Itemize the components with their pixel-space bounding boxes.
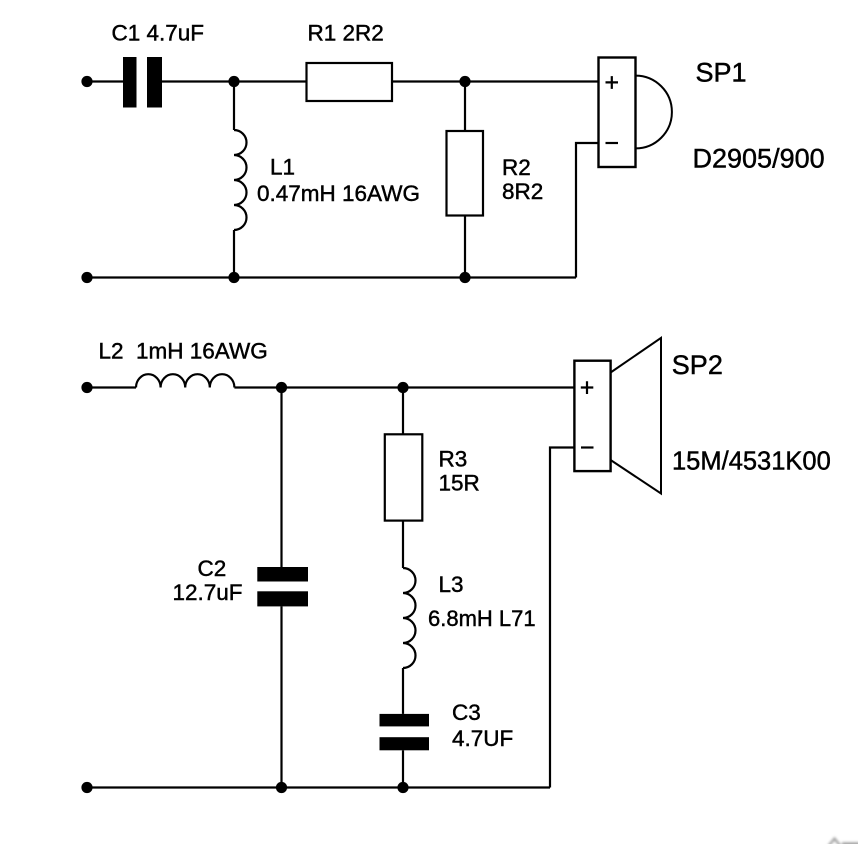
- wire bottom rail top circuit: [87, 276, 576, 278]
- wire bottom rail bottom circuit: [87, 786, 550, 788]
- wire node C down to C2: [280, 388, 282, 568]
- svg-text:6.8mH L71: 6.8mH L71: [428, 606, 536, 631]
- wire SP1 minus leg: [576, 143, 599, 278]
- SP1 minus pin: [606, 142, 619, 144]
- SP1 plus pin: [606, 76, 619, 89]
- node B- junction dot on bottom rail: [459, 272, 470, 283]
- svg-text:C3: C3: [452, 700, 481, 725]
- wire L2 to node C: [234, 386, 281, 388]
- wire L3 to C3: [402, 668, 404, 714]
- wire C2 to bottom rail: [280, 606, 282, 787]
- svg-text:15R: 15R: [439, 471, 480, 496]
- wire node D down to R3: [402, 388, 404, 435]
- capacitor C1 plate 2: [147, 57, 162, 108]
- svg-text:D2905/900: D2905/900: [693, 144, 825, 174]
- capacitor C2 plate 2: [257, 591, 308, 606]
- wire node D to SP2 plus: [403, 386, 574, 388]
- node IN1- terminal dot: [81, 272, 92, 283]
- wire input to C1: [87, 80, 123, 82]
- node A- junction dot on bottom rail: [228, 272, 239, 283]
- SP2 minus pin: [581, 446, 594, 448]
- wire node B to SP1 plus: [465, 80, 599, 82]
- node A junction dot: [228, 76, 239, 87]
- svg-text:L3: L3: [439, 572, 464, 597]
- svg-text:R1 2R2: R1 2R2: [308, 21, 384, 46]
- wire R3 to L3: [402, 521, 404, 568]
- svg-text:SP2: SP2: [672, 350, 723, 380]
- svg-text:C2: C2: [198, 556, 227, 581]
- wire L1 to bottom rail: [233, 230, 235, 278]
- capacitor C1 plate 1: [123, 57, 137, 108]
- wire C1 to node A: [162, 80, 234, 82]
- wire SP2 minus leg: [550, 448, 574, 788]
- svg-text:15M/4531K00: 15M/4531K00: [672, 448, 831, 476]
- node C junction dot: [276, 382, 287, 393]
- wire node A down to L1: [233, 82, 235, 131]
- SP2 woofer cone: [611, 338, 661, 494]
- resistor R1 body: [307, 63, 393, 101]
- svg-text:L1: L1: [270, 154, 295, 179]
- wire node B down to R2: [464, 82, 466, 132]
- resistor R3 body: [385, 434, 423, 520]
- svg-text:8R2: 8R2: [502, 179, 543, 204]
- SP1 tweeter dome: [636, 76, 672, 149]
- wire node A to R1: [234, 80, 307, 82]
- node IN2- terminal dot: [81, 782, 92, 793]
- speaker SP1 body: [599, 58, 636, 168]
- wire R1 to node B: [392, 80, 465, 82]
- wire C3 to bottom rail: [402, 750, 404, 787]
- svg-text:R3: R3: [439, 447, 468, 472]
- node B junction dot: [459, 76, 470, 87]
- node D- junction dot on bottom rail: [397, 782, 408, 793]
- svg-text:0.47mH 16AWG: 0.47mH 16AWG: [257, 181, 420, 206]
- wire input to L2: [87, 386, 136, 388]
- svg-text:R2: R2: [502, 155, 531, 180]
- watermark fragment bottom right: [829, 839, 858, 844]
- svg-text:12.7uF: 12.7uF: [173, 580, 243, 605]
- inductor L2 coil: [136, 374, 234, 387]
- node IN2+ terminal dot: [81, 382, 92, 393]
- svg-text:C1 4.7uF: C1 4.7uF: [112, 21, 205, 46]
- wire node C to node D: [282, 386, 404, 388]
- capacitor C2 plate 1: [257, 567, 308, 582]
- capacitor C3 plate 1: [380, 714, 430, 727]
- inductor L1 coil: [234, 130, 246, 230]
- svg-text:4.7UF: 4.7UF: [452, 726, 513, 751]
- svg-text:SP1: SP1: [696, 57, 747, 87]
- speaker SP2 body: [574, 361, 610, 471]
- SP2 plus pin: [581, 381, 594, 394]
- wire R2 to bottom rail: [464, 216, 466, 278]
- svg-text:L2 1mH 16AWG: L2 1mH 16AWG: [99, 339, 268, 364]
- resistor R2 body: [447, 131, 484, 216]
- capacitor C3 plate 2: [380, 737, 430, 750]
- inductor L3 coil: [403, 568, 415, 668]
- node C- junction dot on bottom rail: [276, 782, 287, 793]
- node D junction dot: [397, 382, 408, 393]
- node IN1+ terminal dot: [81, 76, 92, 87]
